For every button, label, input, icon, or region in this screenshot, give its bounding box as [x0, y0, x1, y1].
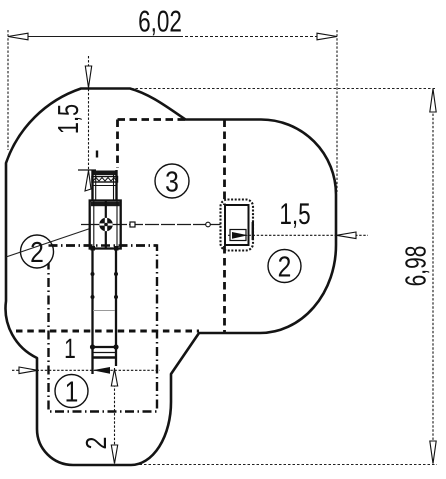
dashed zone line bottom long (y=331) [16, 330, 199, 333]
rope connector square [130, 222, 135, 227]
dimension 6,02 left arrow [8, 33, 28, 40]
rope connector circle [206, 222, 211, 227]
slide rails [91, 249, 93, 375]
tower platform body [90, 201, 121, 249]
spring rider outer rounded rect [221, 200, 254, 251]
svg-text:1,5: 1,5 [279, 198, 310, 231]
platform center post line [105, 201, 107, 249]
dimension 1,5 vertical top arrow (down) [85, 66, 91, 88]
dimension 6,98 top arrow [430, 89, 436, 112]
outline play area [6, 89, 336, 466]
dashed zone line vertical (x=224.5) lower [223, 246, 226, 332]
spring rider seat detail rect [230, 230, 246, 241]
centre pole: filled circle with cross [99, 218, 113, 232]
dimension 6,98 bottom arrow [430, 441, 436, 464]
dimension 1,5 middle left arrow (filled) [232, 232, 248, 239]
dimension 1 right arrow (filled) [93, 367, 111, 374]
svg-text:2: 2 [278, 252, 292, 284]
dimension 1 left arrow [19, 367, 38, 374]
tower ladder sides [92, 170, 117, 201]
dimension 1,5 middle: line [228, 234, 368, 236]
svg-text:2: 2 [30, 237, 44, 269]
platform inner wall lines [93, 201, 95, 248]
balloon 2 left leader [6, 229, 90, 258]
spring rider right edge accent [252, 222, 254, 240]
svg-text:1: 1 [65, 377, 79, 409]
extension line top (y=88.5) [122, 88, 437, 90]
tower ladder top band 2 zigzag [92, 177, 118, 183]
rail junction dots [90, 246, 119, 350]
balloon 2 left circle [21, 235, 54, 268]
balloon 1 [55, 375, 88, 408]
dimension 6,98 right: line [432, 89, 434, 464]
dashed zone line top (y=119.5) [118, 118, 186, 121]
dimension 1 bottom-left: line [12, 369, 160, 371]
extension line bottom (y=464.5) [135, 464, 437, 466]
dimension 2 top arrow (up) [111, 369, 117, 386]
svg-text:1: 1 [64, 333, 76, 364]
slide seam faint [93, 310, 115, 312]
svg-text:3: 3 [165, 167, 179, 199]
dashed zone line left (x=117.5) [116, 120, 119, 169]
dashed zone line vertical (x=224.5) upper [223, 120, 226, 206]
svg-text:1,5: 1,5 [53, 104, 85, 134]
platform top hatch band [91, 202, 120, 206]
safety zone top edge over platform [49, 244, 158, 246]
svg-text:2: 2 [81, 437, 113, 450]
leader line to balloon 2 left [0, 0, 1, 1]
tower ladder top band 1 [92, 171, 118, 176]
balloon 2 right [268, 250, 301, 283]
balloon 3 [155, 164, 189, 198]
svg-text:6,98: 6,98 [401, 246, 433, 287]
svg-text:6,02: 6,02 [138, 6, 182, 39]
dimension 6,02 right arrow [317, 33, 337, 40]
spring rider inner rect [225, 205, 249, 245]
dash-dot safety zone rectangle [49, 246, 158, 412]
rope centerline across platform [90, 224, 121, 226]
dimension 2 vertical: line [114, 368, 116, 464]
dimension 1,5 vertical bottom arrow (up) [85, 171, 91, 192]
dimension 1,5 vertical tick at tower top [78, 169, 96, 171]
tower post tick [96, 151, 98, 158]
dimension 2 bottom arrow (down) [111, 445, 117, 464]
rope line from platform to spring rider [81, 224, 221, 226]
slide exit cross bars [93, 346, 117, 348]
dimension 1,5 middle right arrow [337, 232, 357, 239]
dimension 6,02 top: line [8, 30, 337, 192]
dimension 1,5 vertical (top-left): line [88, 56, 90, 170]
